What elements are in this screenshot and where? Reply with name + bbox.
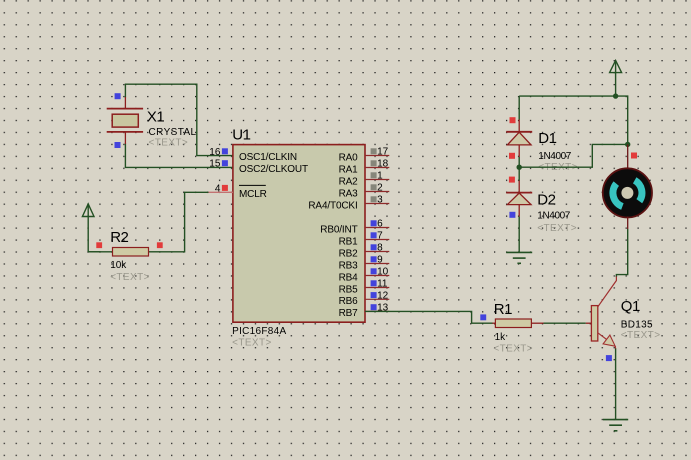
pin 13 RB7 bbox=[339, 303, 390, 320]
pin 10 RB4 bbox=[339, 267, 390, 284]
wire VCC rail top bbox=[519, 96, 628, 144]
pin 2 RA3 bbox=[339, 183, 390, 200]
svg-text:RA0: RA0 bbox=[339, 152, 359, 163]
pin 8 RB2 bbox=[339, 243, 390, 260]
svg-text:15: 15 bbox=[209, 159, 221, 170]
D2 cathode state marker bbox=[509, 177, 515, 183]
svg-text:<TEXT>: <TEXT> bbox=[621, 330, 661, 341]
D1 anode lead bbox=[518, 145, 520, 157]
wire D1 anode to junction bbox=[518, 157, 520, 167]
R1 left lead bbox=[492, 322, 495, 324]
wire VCC to R2 left bbox=[88, 251, 100, 253]
svg-text:9: 9 bbox=[377, 255, 383, 266]
svg-text:BD135: BD135 bbox=[621, 320, 653, 331]
svg-text:10k: 10k bbox=[110, 260, 127, 271]
pin 11 RB5 bbox=[339, 279, 390, 296]
svg-text:<TEXT>: <TEXT> bbox=[537, 223, 577, 234]
pin 16 OSC1/CLKIN bbox=[209, 147, 297, 163]
svg-text:RB0/INT: RB0/INT bbox=[320, 224, 357, 235]
svg-text:MCLR: MCLR bbox=[239, 189, 267, 200]
wire junction D1/D2 to motor node bbox=[519, 144, 628, 167]
motor bottom pin lead bbox=[627, 217, 629, 230]
svg-text:2: 2 bbox=[377, 183, 383, 194]
svg-text:RA3: RA3 bbox=[339, 188, 359, 199]
X1 top pin state marker bbox=[115, 93, 121, 99]
crystal X1 bbox=[107, 93, 197, 148]
svg-text:RA1: RA1 bbox=[339, 164, 359, 175]
X1 body bbox=[112, 114, 138, 127]
diode D2 bbox=[506, 177, 577, 234]
wire motor bottom to Q1 collector bbox=[616, 229, 627, 277]
svg-text:X1: X1 bbox=[147, 108, 165, 125]
svg-text:RA2: RA2 bbox=[339, 176, 359, 187]
svg-text:RA4/T0CKI: RA4/T0CKI bbox=[308, 200, 357, 211]
D2 triangle bbox=[507, 193, 531, 205]
R1 right lead to Q1 base bbox=[531, 322, 543, 324]
X1 top pin lead bbox=[124, 97, 126, 109]
R2 right pin state marker bbox=[157, 242, 163, 248]
power terminal VCC top right bbox=[610, 60, 622, 96]
Q1 emitter tail bbox=[614, 346, 617, 349]
svg-text:1k: 1k bbox=[495, 332, 507, 343]
svg-text:R2: R2 bbox=[110, 229, 128, 246]
R1 left pin state marker bbox=[480, 314, 486, 320]
junction motor top node bbox=[625, 142, 630, 147]
svg-text:16: 16 bbox=[209, 147, 221, 158]
D1 anode state marker bbox=[509, 153, 515, 159]
svg-text:D2: D2 bbox=[537, 192, 555, 209]
svg-text:18: 18 bbox=[377, 159, 389, 170]
svg-text:1N4007: 1N4007 bbox=[537, 211, 570, 222]
resistor R2 bbox=[88, 229, 163, 283]
IC U1 PIC16F84A body bbox=[232, 126, 365, 348]
svg-text:PIC16F84A: PIC16F84A bbox=[232, 326, 286, 337]
svg-text:1N4007: 1N4007 bbox=[538, 151, 571, 162]
pin 18 RA1 bbox=[339, 159, 390, 176]
power terminal VCC left bbox=[82, 204, 94, 252]
svg-text:7: 7 bbox=[377, 231, 383, 242]
R2 left lead bbox=[88, 251, 112, 253]
pin 7 RB1 bbox=[339, 231, 390, 248]
svg-text:1: 1 bbox=[377, 171, 383, 182]
svg-text:6: 6 bbox=[377, 219, 383, 230]
pin 17 RA0 bbox=[339, 147, 390, 164]
X1 bottom plate bbox=[107, 131, 143, 133]
junction VCC rail bbox=[613, 93, 618, 98]
motor top pin state marker bbox=[631, 153, 637, 159]
pin 12 RB6 bbox=[339, 291, 390, 308]
pin 6 RB0/INT bbox=[320, 219, 389, 236]
svg-text:RB2: RB2 bbox=[339, 248, 359, 259]
motor top pin lead bbox=[627, 144, 629, 170]
svg-text:8: 8 bbox=[377, 243, 383, 254]
svg-text:<TEXT>: <TEXT> bbox=[110, 272, 150, 283]
svg-text:3: 3 bbox=[377, 195, 383, 206]
X1 bottom pin lead bbox=[124, 132, 126, 144]
svg-text:10: 10 bbox=[377, 267, 389, 278]
pin 3 RA4/T0CKI bbox=[308, 195, 389, 212]
svg-text:U1: U1 bbox=[232, 126, 250, 143]
D2 anode state marker bbox=[509, 212, 515, 218]
svg-text:4: 4 bbox=[215, 184, 221, 195]
D1 cathode state marker bbox=[510, 117, 516, 123]
wire RB7 to R1 bbox=[365, 311, 493, 323]
Q1 emitter lead bbox=[598, 333, 612, 344]
motor M1 bbox=[603, 168, 652, 217]
Q1 base bar bbox=[591, 306, 597, 341]
transistor Q1 bbox=[591, 277, 660, 362]
Q1 emitter state marker bbox=[606, 355, 612, 361]
svg-text:<TEXT>: <TEXT> bbox=[493, 343, 533, 354]
D2 cathode lead bbox=[518, 181, 520, 193]
svg-text:12: 12 bbox=[377, 291, 389, 302]
ground under D2 bbox=[506, 252, 532, 263]
D1 cathode bar bbox=[506, 131, 532, 133]
Q1 collector lead bbox=[598, 277, 617, 307]
svg-text:RB3: RB3 bbox=[339, 260, 359, 271]
wire D2 anode to ground bbox=[518, 217, 520, 253]
svg-text:Q1: Q1 bbox=[621, 298, 640, 315]
svg-text:CRYSTAL: CRYSTAL bbox=[149, 127, 197, 138]
pin 9 RB3 bbox=[339, 255, 390, 272]
D1 triangle bbox=[507, 132, 531, 145]
svg-text:D1: D1 bbox=[538, 130, 556, 147]
svg-text:<TEXT>: <TEXT> bbox=[149, 138, 189, 149]
svg-text:RB6: RB6 bbox=[339, 296, 359, 307]
X1 bottom pin state marker bbox=[115, 142, 121, 148]
svg-text:RB5: RB5 bbox=[339, 284, 359, 295]
svg-text:RB1: RB1 bbox=[339, 236, 359, 247]
resistor R1 bbox=[480, 301, 591, 354]
wire R2 right to U1 MCLR pin 4 bbox=[161, 192, 209, 252]
wire junction to D2 cathode bbox=[518, 167, 520, 181]
D1 cathode lead bbox=[518, 120, 520, 132]
svg-text:17: 17 bbox=[377, 147, 389, 158]
R1 body bbox=[495, 319, 531, 328]
R2 body bbox=[113, 248, 149, 257]
pin 15 OSC2/CLKOUT bbox=[209, 159, 308, 176]
ground under Q1 bbox=[603, 420, 628, 431]
Q1 emitter arrowhead bbox=[603, 335, 615, 346]
svg-text:11: 11 bbox=[377, 279, 388, 290]
wire rail to D1 cathode bbox=[518, 96, 520, 120]
X1 top plate bbox=[107, 108, 143, 110]
pin 1 RA2 bbox=[339, 171, 390, 188]
wire X1 bottom pin to U1 OSC2/CLKOUT pin 15 bbox=[125, 144, 232, 168]
diode D1 bbox=[506, 117, 578, 173]
svg-text:RB4: RB4 bbox=[339, 272, 359, 283]
R2 left pin state marker bbox=[96, 242, 102, 248]
svg-text:<TEXT>: <TEXT> bbox=[232, 337, 272, 348]
wire X1 top pin to U1 OSC1/CLKIN pin 16 bbox=[125, 84, 232, 155]
junction D1/D2 bbox=[517, 165, 522, 170]
svg-text:RB7: RB7 bbox=[339, 308, 359, 319]
D2 anode lead bbox=[518, 205, 520, 217]
R2 right lead bbox=[149, 251, 161, 253]
pin 4 MCLR bbox=[209, 184, 267, 200]
wire Q1 emitter to ground bbox=[615, 349, 617, 420]
svg-text:R1: R1 bbox=[494, 301, 512, 318]
svg-text:OSC1/CLKIN: OSC1/CLKIN bbox=[239, 152, 297, 163]
D2 cathode bar bbox=[506, 192, 532, 194]
svg-text:OSC2/CLKOUT: OSC2/CLKOUT bbox=[239, 164, 308, 175]
